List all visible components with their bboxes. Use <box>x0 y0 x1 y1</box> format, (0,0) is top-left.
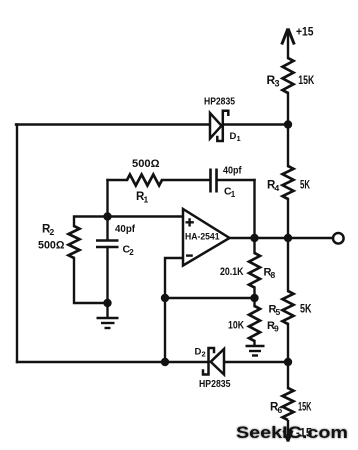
node bottom line junction <box>161 358 169 366</box>
wire: R9 top lead <box>253 298 255 306</box>
wire: bottom line left segment <box>17 361 209 363</box>
wire: C2 top lead <box>106 217 108 241</box>
svg-text:D: D <box>230 131 237 142</box>
svg-text:2: 2 <box>50 227 55 237</box>
svg-text:-15: -15 <box>296 428 313 440</box>
capacitor C1 40pf <box>211 169 217 193</box>
wire: R2 top connection <box>74 217 108 227</box>
wire: R3 bottom to R4 top <box>287 93 289 166</box>
op-amp minus input symbol <box>186 254 193 256</box>
svg-text:500Ω: 500Ω <box>38 240 65 252</box>
svg-text:40pf: 40pf <box>115 224 136 235</box>
wire: R9 bottom lead to ground <box>253 341 255 345</box>
svg-text:5K: 5K <box>300 304 312 316</box>
node chain output junction <box>284 234 292 242</box>
wire: R8 top lead <box>253 238 255 253</box>
svg-text:9: 9 <box>274 324 279 334</box>
resistor R4 5K <box>283 166 294 199</box>
wire: C2 bottom lead <box>106 247 108 303</box>
wire: R8 bottom lead <box>253 288 255 299</box>
wire: bottom node to R6 top <box>287 362 289 388</box>
wire: R1 left drop to plus-input node <box>106 180 108 217</box>
resistor R2 500 ohm <box>69 226 80 258</box>
wire: plus input <box>108 215 184 217</box>
wire: R2 bottom lead and return to ground node <box>74 258 108 303</box>
wire: R1/C1 feedback branch horizontal <box>108 179 255 181</box>
svg-text:10K: 10K <box>228 320 244 332</box>
node output/R8/C1 junction <box>250 234 258 242</box>
wire: minus input <box>165 258 183 298</box>
svg-text:20.1K: 20.1K <box>220 266 244 278</box>
wire: R4 bottom to output node <box>287 199 289 238</box>
op-amp U1 HA-2541 <box>183 209 230 266</box>
wire: R5 bottom to bottom node <box>287 324 289 362</box>
svg-text:1: 1 <box>231 190 236 199</box>
capacitor C2 40pf <box>96 241 119 248</box>
svg-text:1: 1 <box>144 195 149 205</box>
wire: left feedback vertical <box>16 125 18 363</box>
svg-text:2: 2 <box>202 350 206 359</box>
resistor R9 10K <box>249 306 260 341</box>
node R8/R9 junction <box>250 294 258 302</box>
wire: op-amp output line to terminal <box>229 237 333 239</box>
svg-text:500Ω: 500Ω <box>132 158 160 170</box>
svg-text:HP2835: HP2835 <box>204 97 235 108</box>
svg-text:3: 3 <box>275 79 280 89</box>
+15 supply arrow <box>282 29 295 45</box>
diode D1 HP2835 (schottky, pointing right) <box>210 111 228 141</box>
node plus-input junction <box>103 212 111 220</box>
svg-text:2: 2 <box>129 248 134 257</box>
output terminal circle <box>333 233 344 244</box>
wire: R6 bottom to -15 arrow <box>287 420 289 438</box>
wire: top feedback line left segment <box>16 123 210 125</box>
svg-text:6: 6 <box>278 405 283 415</box>
svg-text:4: 4 <box>275 183 280 193</box>
diode D2 HP2835 (schottky, pointing left) <box>203 348 224 375</box>
wire: minus node vertical down to bottom line <box>164 298 166 362</box>
svg-text:D: D <box>195 347 202 358</box>
wire: R8/R9 junction horizontal <box>165 297 255 299</box>
resistor R6 15K <box>283 388 294 420</box>
op-amp plus input symbol <box>186 218 194 226</box>
wire: +15 arrow shaft to R3 <box>287 31 289 58</box>
ground under C2/R2 node <box>97 303 119 328</box>
resistor R3 15K <box>283 58 294 93</box>
svg-text:1: 1 <box>237 134 241 143</box>
svg-text:HP2835: HP2835 <box>199 379 231 390</box>
svg-text:5K: 5K <box>300 180 310 192</box>
node minus feedback junction <box>161 294 169 302</box>
svg-text:HA-2541: HA-2541 <box>185 232 220 242</box>
node top chain junction <box>284 120 292 128</box>
wire: output node to R5 top <box>287 238 289 291</box>
svg-text:40pf: 40pf <box>223 166 242 177</box>
wire: top feedback line right segment (D1 cathode to +15 chain) <box>223 123 288 125</box>
node R2/C2 ground junction <box>103 299 111 307</box>
resistor R1 500 ohm <box>127 175 162 186</box>
wire: bottom line right segment (D2 anode to chain) <box>224 361 288 363</box>
node bottom chain junction <box>284 358 292 366</box>
-15 supply arrow <box>284 431 293 442</box>
wire: C1 branch vertical drop to output node <box>253 180 255 238</box>
svg-text:15K: 15K <box>298 402 312 414</box>
svg-text:+15: +15 <box>296 25 314 39</box>
svg-text:5: 5 <box>276 307 281 317</box>
ground under R9 <box>246 346 265 356</box>
resistor R8 20.1K <box>249 253 260 288</box>
svg-text:8: 8 <box>271 270 276 280</box>
svg-text:15K: 15K <box>298 73 314 87</box>
resistor R5 5K <box>283 291 294 324</box>
